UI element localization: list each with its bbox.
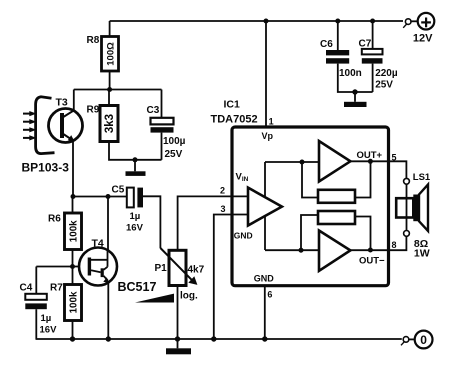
resistor R6	[65, 213, 82, 250]
svg-text:T4: T4	[92, 238, 104, 250]
svg-text:C7: C7	[359, 39, 372, 50]
wire R8 bottom lead	[109, 71, 111, 90]
wire R8 top lead	[109, 21, 111, 37]
wire junction to C5 left plate	[73, 196, 127, 198]
terminal 0V return	[401, 331, 433, 349]
svg-text:BC517: BC517	[118, 280, 157, 294]
svg-text:R9: R9	[87, 105, 100, 116]
node R6/R7/T4 base junction	[70, 264, 75, 269]
light arrows into T3	[23, 111, 37, 141]
wire lower feedback resistor right to OUT-	[355, 217, 371, 251]
wire ground stub	[354, 92, 356, 102]
node C6/C7 ground junction	[352, 89, 357, 94]
wire P1 bottom lead	[177, 286, 179, 340]
potentiometer P1	[160, 248, 197, 286]
wire C3 bottom lead	[161, 133, 163, 160]
wire OUT- to pin 8	[350, 249, 388, 251]
wire R9 bottom lead to C3 bottom	[109, 142, 162, 160]
svg-text:16V: 16V	[40, 324, 58, 335]
node T3 emitter / R6 top junction	[71, 194, 76, 199]
node R9/C3 ground junction	[133, 157, 138, 162]
node pin3 on ground rail	[211, 336, 216, 341]
ground under P1	[166, 348, 191, 354]
op-amp lower power stage triangle	[319, 231, 350, 271]
svg-text:T3: T3	[56, 97, 68, 109]
log taper wedge symbol	[135, 294, 174, 303]
wire C6 bottom lead to ground junction	[338, 64, 373, 92]
wire top +12V supply rail	[110, 20, 403, 22]
svg-text:TDA7052: TDA7052	[211, 114, 258, 126]
svg-text:C5: C5	[112, 185, 125, 196]
node pin6 on ground rail	[262, 336, 267, 341]
svg-text:OUT−: OUT−	[359, 256, 385, 267]
wire to lower feedback resistor left	[301, 215, 318, 250]
wire IC pin 3 down to ground rail	[214, 215, 248, 340]
node C4 on ground rail	[70, 336, 75, 341]
resistor R8	[102, 37, 119, 72]
node OUT+ feedback junction	[368, 159, 373, 164]
svg-text:2: 2	[220, 186, 225, 196]
wire C7 bottom lead	[372, 64, 374, 92]
svg-text:12V: 12V	[413, 33, 433, 45]
wire C4 top lead	[35, 267, 37, 294]
wire bottom ground rail	[36, 338, 402, 340]
wire pin 8 to speaker bottom terminal	[389, 236, 407, 250]
feedback resistor lower	[318, 211, 355, 224]
op-amp input stage triangle	[248, 188, 282, 226]
svg-text:log.: log.	[180, 291, 198, 302]
terminal +12V supply	[403, 13, 434, 30]
svg-text:25V: 25V	[165, 149, 183, 160]
svg-text:100k: 100k	[69, 291, 80, 313]
svg-text:220µ: 220µ	[375, 68, 398, 79]
feedback resistor upper	[318, 190, 355, 203]
svg-text:100n: 100n	[339, 68, 362, 79]
wire upper feedback resistor right to OUT+	[355, 161, 371, 197]
svg-text:GND: GND	[254, 274, 274, 284]
wire to lower power amp input	[265, 249, 319, 251]
wire pin 5 to speaker top terminal	[389, 161, 407, 178]
wire C4 bottom lead	[35, 309, 37, 339]
ground under R9/C3	[126, 171, 146, 176]
svg-text:6: 6	[267, 290, 272, 300]
node C7 on top rail	[370, 19, 375, 24]
node OUT- feedback junction	[368, 248, 373, 253]
wire T4 emitter column	[107, 283, 109, 339]
svg-text:C6: C6	[320, 39, 333, 50]
wire to upper feedback resistor left	[302, 162, 318, 198]
svg-text:1: 1	[269, 117, 274, 127]
svg-text:Vp: Vp	[262, 131, 274, 141]
svg-text:1µ: 1µ	[41, 313, 52, 324]
capacitor C4 electrolytic	[25, 294, 47, 309]
capacitor C5	[127, 188, 143, 208]
node upper amp input junction	[300, 160, 305, 165]
svg-text:IC1: IC1	[224, 99, 241, 111]
svg-text:100µ: 100µ	[163, 136, 186, 147]
wire R7 bottom lead	[72, 321, 74, 340]
wire C6 top lead	[337, 21, 339, 50]
wire T3 collector riser	[73, 90, 75, 111]
svg-text:1µ: 1µ	[130, 211, 141, 222]
svg-text:GND: GND	[234, 231, 253, 241]
wire pin 1 riser from supply rail	[265, 21, 267, 127]
node T4 collector junction	[106, 194, 111, 199]
node P1 on ground rail	[175, 336, 180, 341]
wire to upper power amp input	[265, 161, 319, 163]
svg-text:3: 3	[221, 204, 226, 214]
wire C3 top lead	[161, 90, 163, 118]
node pin1 on top rail	[264, 19, 269, 24]
wire R6 top lead	[72, 197, 74, 214]
wire R7 top lead	[72, 267, 74, 285]
svg-text:OUT+: OUT+	[357, 150, 383, 161]
svg-text:C3: C3	[147, 105, 160, 116]
node T4 emitter on ground rail	[106, 336, 111, 341]
svg-text:100k: 100k	[69, 220, 80, 242]
node C6 on top rail	[335, 19, 340, 24]
speaker LS1	[396, 178, 428, 236]
svg-text:4k7: 4k7	[188, 265, 205, 276]
wire ground stub below rail	[177, 339, 179, 348]
wire T4 collector riser	[107, 197, 109, 252]
capacitor C3 electrolytic	[151, 118, 174, 133]
node lower amp input junction	[299, 248, 304, 253]
wire P1 top terminal to IC pin 2	[178, 196, 248, 250]
ground under C6/C7	[344, 102, 367, 107]
wire internal bus behind input amp	[264, 162, 266, 250]
transistor T3 phototransistor BP103-3	[36, 97, 83, 154]
svg-text:16V: 16V	[126, 223, 144, 234]
wire OUT+ to pin 5	[350, 160, 388, 162]
svg-text:R7: R7	[50, 283, 63, 294]
svg-text:BP103-3: BP103-3	[22, 161, 70, 175]
wire T4 base	[36, 266, 79, 268]
wire T3 emitter column	[72, 141, 74, 197]
transistor T4 darlington BC517	[79, 248, 117, 286]
resistor R7	[65, 285, 82, 321]
wire R6 bottom lead	[72, 250, 74, 267]
svg-text:P1: P1	[155, 263, 168, 274]
svg-text:C4: C4	[20, 283, 33, 294]
wire R9 top lead	[108, 90, 110, 106]
svg-text:100Ω: 100Ω	[105, 42, 116, 66]
svg-text:R8: R8	[87, 35, 100, 46]
op-amp IC1 TDA7052 package outline	[232, 127, 389, 286]
wire horizontal from T3 collector to C3 top	[74, 89, 162, 91]
node junction R8 / T3 collector / R9	[107, 87, 112, 92]
capacitor C7 electrolytic	[362, 49, 383, 64]
svg-text:8: 8	[392, 240, 397, 250]
svg-text:LS1: LS1	[413, 172, 431, 183]
capacitor C6	[326, 50, 349, 64]
svg-text:3k3: 3k3	[104, 114, 116, 133]
resistor R9	[100, 106, 118, 142]
wire C7 top lead	[372, 21, 374, 49]
svg-text:R6: R6	[48, 214, 61, 225]
svg-text:0: 0	[420, 333, 427, 347]
wire C5 to P1 wiper	[143, 196, 160, 248]
wire ground stub	[134, 160, 136, 172]
op-amp upper power stage triangle	[319, 141, 350, 182]
svg-text:1W: 1W	[414, 247, 430, 259]
wire pin 6 to ground rail	[264, 286, 266, 339]
svg-text:25V: 25V	[375, 80, 393, 91]
